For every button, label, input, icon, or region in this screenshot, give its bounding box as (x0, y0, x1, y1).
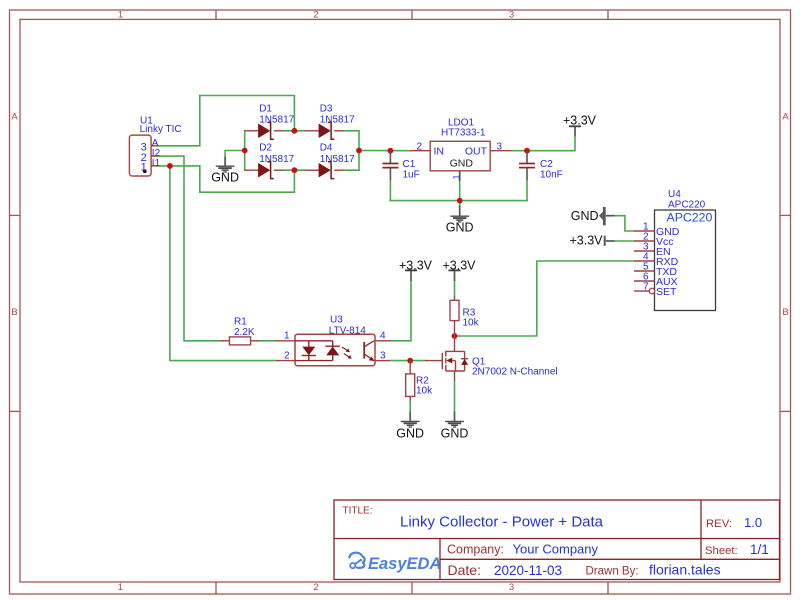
svg-text:Your Company: Your Company (513, 542, 599, 557)
svg-text:GND: GND (441, 426, 469, 440)
svg-text:2: 2 (313, 582, 318, 593)
svg-text:1: 1 (118, 582, 123, 593)
svg-text:10k: 10k (416, 386, 433, 397)
svg-text:2: 2 (313, 9, 318, 20)
svg-text:B: B (11, 307, 17, 318)
svg-text:1.0: 1.0 (744, 515, 762, 530)
svg-text:1: 1 (451, 174, 461, 179)
svg-text:3: 3 (380, 350, 386, 361)
svg-text:+3.3V: +3.3V (563, 113, 597, 127)
svg-text:APC220: APC220 (667, 210, 713, 224)
svg-text:GND: GND (571, 209, 599, 223)
svg-text:1: 1 (141, 162, 147, 174)
svg-text:Company:: Company: (447, 542, 504, 556)
svg-text:Date:: Date: (448, 562, 481, 578)
svg-text:C1: C1 (403, 159, 416, 170)
svg-text:R1: R1 (234, 317, 247, 328)
svg-text:4: 4 (380, 331, 386, 342)
svg-text:10nF: 10nF (540, 170, 563, 181)
svg-text:Drawn By:: Drawn By: (586, 566, 639, 578)
svg-text:SET: SET (656, 286, 677, 298)
svg-text:1N5817: 1N5817 (259, 115, 294, 126)
svg-text:GND: GND (450, 158, 474, 170)
svg-text:HT7333-1: HT7333-1 (441, 128, 486, 139)
svg-text:1uF: 1uF (403, 170, 420, 181)
svg-text:D1: D1 (259, 103, 272, 114)
svg-text:Sheet:: Sheet: (705, 545, 738, 557)
svg-text:1N5817: 1N5817 (320, 115, 355, 126)
svg-text:+3.3V: +3.3V (442, 258, 476, 272)
svg-text:Linky Collector - Power + Data: Linky Collector - Power + Data (400, 514, 604, 531)
svg-text:2.2K: 2.2K (234, 327, 255, 338)
svg-text:+3.3V: +3.3V (399, 258, 433, 272)
svg-text:1: 1 (118, 9, 123, 20)
svg-text:2N7002 N-Channel: 2N7002 N-Channel (472, 367, 558, 378)
svg-text:1N5817: 1N5817 (320, 154, 355, 165)
svg-text:U3: U3 (330, 314, 343, 325)
svg-text:+3.3V: +3.3V (569, 233, 603, 247)
svg-text:D4: D4 (320, 143, 333, 154)
svg-text:REV:: REV: (706, 518, 732, 530)
svg-text:florian.tales: florian.tales (649, 562, 721, 578)
svg-text:GND: GND (211, 171, 239, 185)
svg-text:I1: I1 (152, 158, 161, 169)
svg-text:GND: GND (396, 426, 424, 440)
svg-text:A: A (782, 112, 789, 123)
svg-text:TITLE:: TITLE: (343, 506, 373, 517)
svg-text:GND: GND (446, 221, 474, 235)
svg-text:1/1: 1/1 (750, 542, 769, 557)
svg-text:2020-11-03: 2020-11-03 (494, 563, 562, 578)
svg-text:B: B (782, 307, 788, 318)
svg-text:LTV-814: LTV-814 (329, 326, 366, 337)
svg-text:A: A (11, 112, 18, 123)
svg-text:1N5817: 1N5817 (259, 154, 294, 165)
svg-text:U4: U4 (668, 189, 681, 200)
svg-text:OUT: OUT (465, 146, 488, 158)
svg-text:3: 3 (509, 582, 514, 593)
svg-text:D3: D3 (320, 103, 333, 114)
svg-text:2: 2 (284, 350, 290, 361)
svg-text:1: 1 (284, 331, 290, 342)
svg-text:10k: 10k (463, 318, 480, 329)
svg-text:3: 3 (497, 141, 503, 152)
svg-text:APC220: APC220 (668, 199, 706, 210)
svg-text:3: 3 (509, 9, 514, 20)
svg-text:Linky TIC: Linky TIC (140, 124, 182, 135)
svg-text:C2: C2 (540, 159, 553, 170)
svg-text:2: 2 (416, 141, 422, 152)
svg-text:D2: D2 (259, 143, 272, 154)
svg-text:IN: IN (434, 146, 445, 158)
svg-text:EasyEDA: EasyEDA (368, 555, 441, 573)
svg-text:7: 7 (643, 282, 649, 293)
